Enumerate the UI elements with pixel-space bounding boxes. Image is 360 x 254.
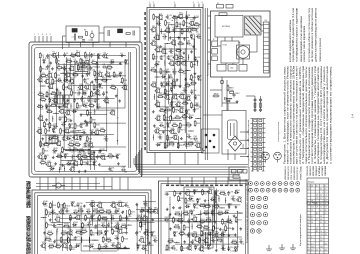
posistor diamond (229, 136, 242, 151)
svg-text:1,5к: 1,5к (73, 226, 77, 228)
resistor R102 (189, 143, 193, 145)
svg-text:VD24: VD24 (116, 154, 121, 156)
pin 2 of module A1 (38, 36, 40, 42)
module A1 inner frame 2 (35, 48, 137, 172)
transistor V18 (95, 91, 99, 95)
svg-text:C80: C80 (231, 196, 234, 198)
svg-text:C22: C22 (82, 130, 85, 132)
wire (56, 156, 117, 158)
wire (52, 55, 127, 57)
wire (196, 60, 198, 66)
diode VD41 (71, 203, 73, 205)
resistor R66 (176, 22, 178, 26)
transistor V45 (155, 36, 159, 40)
resistor R6 (80, 59, 82, 63)
capacitor C62 (74, 211, 76, 214)
resistor R21 (63, 85, 65, 89)
capacitor C60 (52, 211, 54, 214)
svg-text:12к: 12к (106, 58, 109, 60)
svg-text:C11: C11 (94, 77, 97, 79)
wire (52, 116, 54, 122)
svg-text:R84: R84 (183, 101, 186, 103)
transistor V91 (193, 217, 197, 221)
svg-text:12: 12 (325, 198, 327, 200)
wire (239, 177, 241, 187)
transistor V44 (187, 28, 191, 32)
svg-text:4,7: 4,7 (308, 237, 310, 239)
wire (214, 191, 216, 230)
diode VD12 (45, 106, 47, 108)
diode VD45 (105, 232, 107, 234)
resistor R10 (77, 66, 79, 70)
wire (203, 114, 222, 116)
svg-text:2,2: 2,2 (54, 57, 57, 59)
transistor V53 (182, 61, 186, 65)
svg-text:1,5к: 1,5к (241, 244, 245, 246)
capacitor C57 (184, 143, 186, 146)
svg-text:12: 12 (325, 185, 327, 187)
table row line (307, 210, 329, 212)
svg-text:V17: V17 (123, 84, 126, 86)
svg-text:C38: C38 (196, 34, 199, 36)
svg-text:ТЕЛЕВИЗОР ЦВЕТНОГО ИЗОБРАЖЕНИЯ: ТЕЛЕВИЗОР ЦВЕТНОГО ИЗОБРАЖЕНИЯ (27, 216, 33, 254)
ground (122, 211, 124, 212)
ground (236, 100, 238, 101)
svg-text:10к: 10к (156, 39, 159, 41)
svg-text:2,2: 2,2 (168, 19, 171, 21)
svg-text:470: 470 (191, 107, 194, 109)
svg-text:28: 28 (320, 216, 322, 218)
relay coil rect (228, 120, 238, 140)
svg-text:R48: R48 (88, 139, 91, 141)
svg-text:приведенной: приведенной (315, 165, 318, 176)
resistor R105 (126, 33, 130, 35)
svg-text:10к: 10к (110, 64, 113, 66)
output jack X15 (263, 204, 267, 208)
svg-text:470: 470 (90, 206, 93, 208)
capacitor C50 (170, 102, 173, 104)
resistor R32 (38, 106, 42, 108)
svg-text:VD51: VD51 (142, 246, 147, 248)
svg-text:470: 470 (50, 88, 53, 90)
transistor V37 (73, 162, 77, 166)
ground (84, 170, 86, 171)
svg-text:V24: V24 (111, 109, 114, 111)
ground (46, 118, 48, 119)
svg-text:22: 22 (73, 128, 75, 130)
svg-text:5,6к: 5,6к (90, 100, 94, 102)
svg-text:V52: V52 (176, 60, 179, 62)
transistor V15 (79, 86, 83, 90)
diode VD56 (197, 200, 199, 202)
module A3 inner frame (35, 193, 148, 254)
capacitor C77 (154, 239, 156, 242)
wire (70, 130, 76, 132)
relay sub-box (229, 167, 249, 180)
wire (126, 224, 132, 226)
resistor R132 (106, 239, 110, 241)
svg-text:R101: R101 (179, 145, 184, 147)
output jack X20 (257, 221, 261, 225)
svg-text:V14: V14 (68, 84, 71, 86)
svg-text:VD32: VD32 (197, 76, 202, 78)
svg-text:22: 22 (219, 215, 221, 217)
transistor V20 (104, 99, 108, 103)
svg-text:5,6к: 5,6к (196, 26, 200, 28)
svg-text:с соответствующими параметрами: с соответствующими параметрами по справо… (329, 65, 332, 164)
transistor V75 (76, 216, 80, 220)
svg-text:22: 22 (71, 152, 73, 154)
wire (204, 8, 206, 160)
transistor V22 (60, 109, 64, 113)
connector stub X6 (240, 131, 248, 133)
svg-text:VD33: VD33 (160, 82, 165, 84)
svg-text:V71: V71 (112, 202, 115, 204)
svg-text:VD25: VD25 (67, 161, 72, 163)
svg-text:12к: 12к (90, 134, 93, 136)
svg-text:115: 115 (311, 246, 314, 248)
svg-text:2,2: 2,2 (172, 65, 175, 67)
wire (174, 19, 176, 89)
svg-text:VD9: VD9 (98, 83, 102, 85)
svg-text:R70: R70 (192, 28, 195, 30)
wire (180, 191, 204, 193)
output jack X22 (250, 229, 254, 233)
svg-text:115: 115 (325, 234, 328, 236)
ground (58, 106, 60, 107)
diode VD68 (234, 248, 236, 250)
output jack X21 (263, 221, 267, 225)
capacitor C51 (196, 104, 198, 107)
wire (93, 248, 129, 250)
svg-text:C63: C63 (86, 209, 89, 211)
transistor V31 (88, 143, 92, 147)
transistor V88 (186, 191, 190, 195)
svg-text:R120: R120 (122, 224, 127, 226)
output jack X10 (250, 196, 254, 200)
svg-text:9,1: 9,1 (325, 207, 327, 209)
table row line (307, 229, 329, 231)
wire interconnect bus (136, 166, 247, 168)
capacitor C13 (102, 92, 105, 94)
resistor R138 (140, 222, 142, 226)
svg-text:C87: C87 (239, 239, 242, 241)
svg-text:R20: R20 (124, 80, 127, 82)
svg-text:VD21: VD21 (53, 148, 58, 150)
transistor V57 (165, 95, 169, 99)
transistor V52 (176, 61, 180, 65)
resistor R5 (67, 60, 71, 62)
svg-text:V90: V90 (238, 196, 241, 198)
wire (203, 177, 205, 186)
capacitor C14 (73, 99, 76, 101)
resistor R119 (82, 223, 84, 227)
svg-text:R78: R78 (179, 69, 182, 71)
diode VD6 (119, 73, 121, 75)
svg-text:VD60: VD60 (228, 203, 233, 205)
wire (119, 177, 121, 190)
svg-text:1,5к: 1,5к (109, 158, 113, 160)
wire (191, 177, 193, 186)
antenna plug XW2 (274, 152, 282, 160)
sub-module box in A1 (97, 62, 125, 108)
wire (236, 211, 238, 251)
resistor R158 (175, 226, 179, 228)
svg-text:5,6к: 5,6к (234, 251, 238, 253)
svg-text:V82: V82 (148, 207, 151, 209)
resistor R88 (173, 108, 175, 112)
resistor R101 (177, 144, 179, 148)
wire (217, 37, 219, 41)
svg-text:C27: C27 (68, 147, 71, 149)
svg-text:28: 28 (325, 210, 327, 212)
wire (193, 39, 195, 61)
diode VD54 (236, 191, 238, 193)
ground (153, 124, 155, 125)
svg-text:VD39: VD39 (157, 142, 162, 144)
svg-text:0,05: 0,05 (178, 216, 182, 218)
svg-text:5: 5 (50, 34, 51, 36)
capacitor C29 (96, 156, 99, 158)
svg-text:24: 24 (311, 222, 313, 224)
wire (52, 201, 54, 222)
resistor R104 (58, 203, 60, 207)
transistor V36 (47, 163, 51, 167)
transistor V5 (70, 67, 74, 71)
svg-text:115: 115 (311, 207, 314, 209)
wire (86, 202, 125, 204)
resistor R80 (186, 84, 190, 86)
wire (62, 36, 64, 49)
capacitor C41 (160, 56, 163, 58)
svg-text:1,5к: 1,5к (79, 69, 83, 71)
svg-text:C50: C50 (172, 102, 175, 104)
svg-text:0,1: 0,1 (196, 208, 199, 210)
transistor V19 (53, 98, 57, 102)
svg-text:4,7: 4,7 (316, 219, 318, 221)
capacitor C85 (191, 240, 194, 242)
svg-text:VD1: VD1 (97, 54, 101, 56)
wire (160, 28, 162, 34)
svg-text:R59: R59 (83, 154, 86, 156)
transistor V93 (214, 233, 218, 237)
wire (125, 42, 127, 47)
capacitor C64 (111, 217, 113, 220)
wire (179, 22, 181, 58)
svg-text:V61: V61 (156, 101, 159, 103)
ground (42, 137, 44, 138)
transistor V35 (101, 155, 105, 159)
table row line (307, 186, 329, 188)
svg-text:33к: 33к (233, 201, 236, 203)
capacitor C90 (227, 247, 230, 249)
svg-text:0,2: 0,2 (320, 195, 322, 197)
svg-text:2,2: 2,2 (86, 76, 89, 78)
ground (176, 78, 178, 79)
ground tick 3 (290, 247, 296, 249)
ground (162, 131, 164, 132)
svg-text:0,1: 0,1 (103, 132, 106, 134)
svg-text:6,8: 6,8 (311, 249, 313, 251)
ground (56, 88, 58, 89)
wire (169, 153, 171, 165)
svg-text:C45: C45 (172, 69, 175, 71)
wire (172, 36, 189, 38)
resistor R46 (100, 130, 104, 132)
svg-text:V72: V72 (118, 201, 121, 203)
svg-text:R91: R91 (176, 116, 179, 118)
svg-text:VD57: VD57 (211, 197, 216, 199)
svg-text:R100: R100 (169, 142, 174, 144)
wire (128, 52, 130, 168)
svg-text:Напряж.: Напряж. (308, 182, 315, 184)
svg-text:2,2: 2,2 (47, 146, 50, 148)
svg-text:V91: V91 (193, 216, 196, 218)
wire (71, 155, 73, 161)
svg-text:C51: C51 (195, 102, 198, 104)
svg-text:100: 100 (223, 195, 226, 197)
resistor R107 (78, 210, 82, 212)
wire (68, 42, 70, 47)
svg-text:R51: R51 (69, 142, 72, 144)
svg-text:1,5к: 1,5к (59, 82, 63, 84)
svg-text:22: 22 (153, 87, 155, 89)
svg-text:6,8: 6,8 (308, 249, 310, 251)
svg-text:R58: R58 (57, 154, 60, 156)
svg-text:0,1: 0,1 (41, 164, 44, 166)
resistor R153 (200, 221, 204, 223)
svg-text:V19: V19 (54, 97, 57, 99)
ground (233, 215, 235, 216)
diode VD48 (141, 209, 143, 211)
resistor R34 (76, 104, 78, 108)
svg-text:R47: R47 (53, 135, 56, 137)
svg-text:R94: R94 (181, 125, 184, 127)
resistor R139 (174, 191, 176, 195)
svg-text:R83: R83 (158, 94, 161, 96)
transistor V61 (156, 103, 160, 107)
transistor V2 (76, 52, 80, 56)
wire (184, 153, 186, 165)
svg-text:24: 24 (325, 204, 327, 206)
wire (144, 231, 152, 233)
svg-text:C65: C65 (128, 216, 131, 218)
transistor V85 (142, 217, 146, 221)
wire (57, 224, 63, 226)
svg-text:C47: C47 (183, 87, 186, 89)
label TDKS (217, 5, 224, 9)
resistor R102 (86, 32, 88, 36)
wire (41, 217, 47, 219)
wire (80, 206, 82, 252)
pin 5 of module A1 (50, 36, 52, 42)
svg-text:C64: C64 (111, 216, 114, 218)
svg-text:4,7: 4,7 (316, 228, 318, 230)
svg-text:9,1: 9,1 (320, 222, 322, 224)
ground (214, 220, 216, 221)
svg-text:VD26: VD26 (93, 161, 98, 163)
svg-text:C66: C66 (52, 223, 55, 225)
svg-text:1,3: 1,3 (316, 207, 318, 209)
svg-text:C14: C14 (76, 99, 79, 101)
table row line (307, 247, 329, 249)
svg-text:0,05: 0,05 (105, 102, 109, 104)
svg-text:22: 22 (188, 127, 190, 129)
svg-text:22: 22 (169, 32, 171, 34)
svg-text:V41: V41 (190, 20, 193, 22)
wire (185, 70, 191, 72)
diode VD66 (194, 247, 196, 249)
svg-text:100: 100 (192, 38, 195, 40)
capacitor C49 (194, 95, 197, 97)
svg-text:VD29: VD29 (190, 34, 195, 36)
table row line (307, 232, 329, 234)
resistor R147 (175, 213, 179, 215)
svg-text:C58: C58 (79, 203, 82, 205)
wire (78, 159, 96, 161)
svg-text:C3: C3 (93, 54, 95, 56)
svg-text:0,2: 0,2 (320, 204, 322, 206)
diode VD26 (93, 162, 95, 164)
capacitor C105 (107, 30, 109, 36)
svg-text:C6: C6 (48, 65, 50, 67)
svg-text:5,6к: 5,6к (85, 69, 89, 71)
svg-text:100: 100 (194, 98, 197, 100)
wire (62, 96, 64, 102)
svg-text:V39: V39 (159, 14, 162, 16)
svg-text:VD11: VD11 (48, 98, 53, 100)
svg-text:22: 22 (213, 242, 215, 244)
svg-text:10к: 10к (84, 95, 87, 97)
ground (179, 192, 181, 193)
svg-text:1,5к: 1,5к (174, 250, 178, 252)
wire (99, 32, 104, 34)
svg-text:картой режимов: картой режимов (312, 166, 315, 176)
svg-text:C48: C48 (193, 90, 196, 92)
svg-text:5,6к: 5,6к (175, 19, 179, 21)
resistor R58 (58, 156, 62, 158)
svg-text:R150: R150 (218, 211, 223, 213)
table row line (307, 213, 329, 215)
connector stub X8 (240, 147, 248, 149)
wire (225, 63, 227, 65)
svg-text:2,2: 2,2 (174, 112, 177, 114)
wire (79, 177, 81, 190)
resistor R98 (167, 136, 169, 140)
resistor R16 (94, 71, 96, 75)
capacitor C61 (65, 210, 67, 213)
svg-text:R76: R76 (151, 68, 154, 70)
svg-text:1,5к: 1,5к (42, 101, 46, 103)
ladder rail (252, 119, 254, 169)
diode VD17 (52, 129, 54, 131)
svg-text:R126: R126 (97, 231, 102, 233)
diode VD36 (186, 111, 188, 113)
transistor V32 (38, 155, 42, 159)
resistor R150 (218, 213, 222, 215)
DIN socket pin row 1 (249, 182, 253, 186)
svg-text:V74: V74 (56, 216, 59, 218)
svg-text:V46: V46 (152, 40, 155, 42)
wire (65, 57, 67, 81)
wire (200, 210, 202, 251)
svg-text:33к: 33к (114, 213, 117, 215)
resistor R70 (192, 29, 196, 31)
output jack X16 (250, 213, 254, 217)
svg-text:C12: C12 (77, 90, 80, 92)
svg-text:R134: R134 (49, 244, 54, 246)
svg-text:V86: V86 (145, 230, 148, 232)
